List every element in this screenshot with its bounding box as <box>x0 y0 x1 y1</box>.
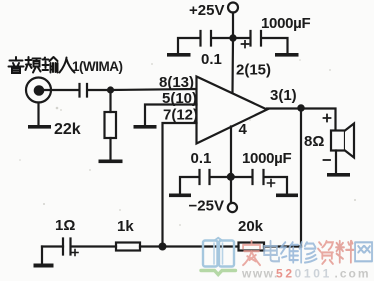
svg-text:−25V: −25V <box>189 198 224 215</box>
wire pin 4 down <box>230 127 232 204</box>
wire jack to C-in <box>44 89 80 91</box>
wire pin 5(10) to ground <box>145 105 197 126</box>
wire top rail right <box>233 38 288 53</box>
频 <box>26 57 41 73</box>
svg-text:8Ω: 8Ω <box>304 133 324 150</box>
svg-text:1k: 1k <box>117 218 134 235</box>
电 <box>264 241 279 261</box>
speaker LS1 <box>331 131 345 151</box>
svg-text:+25V: +25V <box>189 2 224 19</box>
wire +25V to pin 2(15) <box>231 13 234 93</box>
音 <box>9 57 24 73</box>
capacitor 1 ohm (electrolytic) <box>63 239 71 255</box>
input jack J1 <box>26 78 51 103</box>
wire bottom rail left <box>180 177 231 194</box>
ground (top left) <box>167 53 191 57</box>
resistor 20k <box>239 243 265 251</box>
ground (bottom right) <box>276 194 298 198</box>
svg-text:1000µF: 1000µF <box>242 150 292 167</box>
ground (bottom left corner) <box>41 247 43 264</box>
维 <box>281 242 298 262</box>
wire output down to feedback <box>300 108 302 247</box>
ground (input jack) <box>37 103 39 126</box>
capacitor C-in (WIMA) <box>80 84 88 97</box>
svg-text:7(12): 7(12) <box>163 107 198 124</box>
资 <box>318 241 333 264</box>
output wire pin 3(1) <box>267 109 336 131</box>
wire top rail left <box>178 38 233 53</box>
ground (bottom left) <box>169 194 191 198</box>
输 <box>43 57 58 73</box>
minus mark (speaker) <box>324 159 331 161</box>
wire pin 7(12) feedback down <box>163 123 197 247</box>
plus mark (1 ohm cap) <box>72 250 78 256</box>
resistor 1k <box>116 243 140 251</box>
入 <box>60 58 75 73</box>
plus mark (bottom cap) <box>268 180 275 187</box>
料 <box>336 241 353 263</box>
svg-text:1000µF: 1000µF <box>261 15 311 32</box>
svg-text:4: 4 <box>239 121 248 138</box>
node output <box>297 104 305 112</box>
watermark text 家电维修资料网 <box>243 241 372 265</box>
node input junction <box>107 86 114 93</box>
svg-text:52: 52 <box>276 267 295 281</box>
ground (top right) <box>275 53 299 57</box>
plus mark (speaker) <box>324 115 331 122</box>
+25V terminal <box>228 3 238 13</box>
node bottom rail <box>227 173 235 181</box>
ground (pin 5) <box>134 125 157 129</box>
svg-text:2(15): 2(15) <box>236 62 271 79</box>
svg-text:1(WIMA): 1(WIMA) <box>72 59 123 74</box>
capacitor 0.1 (bottom) <box>200 170 210 184</box>
svg-text:www.: www. <box>241 267 279 281</box>
svg-text:0.1: 0.1 <box>201 51 222 68</box>
svg-text:.com: .com <box>335 267 371 281</box>
wire bottom rail right <box>231 177 287 194</box>
ground (speaker) <box>327 173 350 177</box>
capacitor 1000uF (bottom) <box>253 170 264 184</box>
bottom feedback wire <box>42 245 301 247</box>
svg-text:20k: 20k <box>238 218 264 235</box>
svg-text:0101: 0101 <box>295 267 333 281</box>
wire C-in to amp pin 8(13) <box>88 89 197 90</box>
修 <box>300 242 317 262</box>
svg-text:8(13): 8(13) <box>159 74 194 91</box>
wire 22k to ground <box>109 138 111 160</box>
watermark url www.520101.com <box>241 267 371 281</box>
svg-text:0.1: 0.1 <box>191 150 212 167</box>
node top rail <box>229 34 236 41</box>
scan speckles (decorative) <box>19 59 356 226</box>
capacitor 0.1 (top) <box>201 31 212 46</box>
家 <box>243 241 260 265</box>
svg-text:3(1): 3(1) <box>270 87 297 104</box>
plus mark (top cap) <box>242 41 249 48</box>
wire speaker to ground <box>335 151 337 174</box>
wire junction down to R 22k <box>109 90 111 112</box>
node feedback junction <box>159 243 167 251</box>
-25V terminal <box>228 203 237 212</box>
svg-text:1Ω: 1Ω <box>55 217 75 234</box>
input label 音频输入1(WIMA) <box>9 57 75 73</box>
capacitor 1000uF (top) <box>251 31 262 46</box>
op-amp U1 triangle <box>197 77 268 144</box>
svg-text:22k: 22k <box>54 121 81 138</box>
网 <box>355 242 372 261</box>
resistor 22k <box>105 112 117 138</box>
watermark book icon <box>201 238 236 275</box>
ground (22k) <box>99 160 123 164</box>
